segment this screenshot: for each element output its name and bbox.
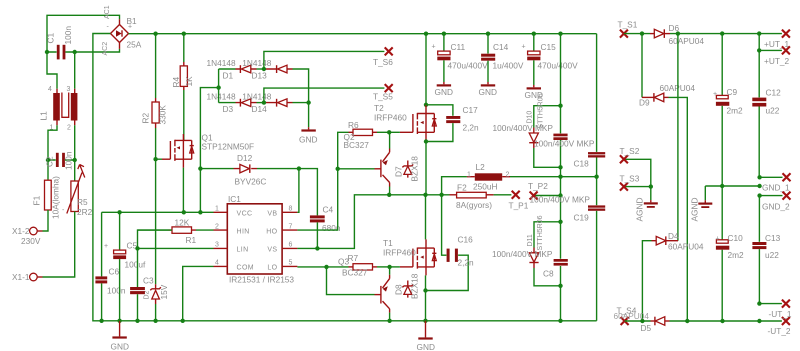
resistor R4 1K: [171, 34, 194, 141]
svg-text:100n: 100n: [64, 151, 74, 170]
svg-text:2: 2: [215, 223, 219, 230]
wire primary column x560: [558, 34, 562, 321]
svg-text:C3: C3: [143, 276, 154, 286]
svg-text:T_S5: T_S5: [373, 92, 393, 102]
svg-text:C18: C18: [574, 159, 590, 169]
svg-text:LO: LO: [267, 264, 277, 271]
ground symbol AGND (T_S2/T_S3): [635, 198, 658, 222]
svg-text:D10: D10: [527, 111, 534, 124]
svg-text:IRFP460: IRFP460: [374, 113, 407, 123]
svg-text:R7: R7: [348, 253, 359, 263]
wire net AC2 (C1 right to bridge AC2, down to L1 pin3): [65, 49, 119, 89]
wire net GND_2: [757, 193, 782, 197]
svg-text:+UT_2: +UT_2: [764, 56, 790, 66]
svg-text:VB: VB: [267, 211, 277, 218]
svg-text:1K: 1K: [184, 76, 194, 87]
svg-text:230V: 230V: [21, 236, 41, 246]
svg-text:2,2n: 2,2n: [458, 258, 475, 268]
test point +UT_1: [764, 30, 790, 49]
fuse F1 10A: [32, 176, 61, 219]
svg-text:HO: HO: [266, 228, 277, 235]
wire Q1 gate net / D2 column: [153, 157, 162, 284]
svg-text:7: 7: [289, 223, 293, 230]
svg-text:R4: R4: [171, 77, 181, 88]
svg-text:BYV26C: BYV26C: [235, 177, 267, 187]
capacitor C19 400V MKP: [574, 177, 606, 321]
svg-text:F2: F2: [457, 183, 467, 193]
svg-text:5: 5: [289, 259, 293, 266]
svg-text:u22: u22: [766, 106, 780, 116]
svg-text:3: 3: [67, 86, 71, 93]
svg-text:1: 1: [467, 172, 471, 179]
svg-text:1N4148: 1N4148: [242, 58, 271, 68]
svg-text:R6: R6: [348, 120, 359, 130]
ground symbol GND (C14): [479, 82, 497, 97]
wire net AC1 (C1 left to bridge AC1): [45, 15, 120, 89]
capacitor C13 u22: [752, 196, 780, 304]
svg-text:100n/400V MKP: 100n/400V MKP: [493, 123, 554, 133]
svg-text:+: +: [104, 243, 108, 250]
svg-text:T_P2: T_P2: [528, 181, 548, 191]
svg-text:C19: C19: [574, 212, 590, 222]
svg-text:AGND: AGND: [635, 198, 645, 222]
svg-text:470u/400V: 470u/400V: [448, 61, 489, 71]
svg-text:250uH: 250uH: [473, 182, 497, 192]
wire L1 pin1 to C2 left / F1: [46, 125, 57, 180]
svg-text:C4: C4: [323, 205, 334, 215]
wire T1 source to GND: [423, 275, 427, 320]
ground symbol AGND (GND row): [690, 198, 713, 222]
svg-text:-UT_1: -UT_1: [769, 309, 792, 319]
diode D14 1N4148: [242, 92, 310, 114]
svg-text:100n/400V MKP: 100n/400V MKP: [530, 194, 591, 204]
svg-text:L1: L1: [39, 111, 49, 121]
capacitor C3: [130, 276, 154, 321]
transistor T2 IRFP460: [374, 34, 436, 142]
svg-text:12K: 12K: [175, 218, 190, 228]
svg-text:T2: T2: [374, 103, 384, 113]
svg-text:GND: GND: [299, 135, 317, 145]
svg-text:D1: D1: [223, 71, 234, 81]
svg-text:STTH5R06: STTH5R06: [537, 215, 544, 250]
diode D5 60APU04: [651, 320, 655, 322]
wire net T_S6: [262, 47, 394, 71]
svg-text:C9: C9: [727, 87, 738, 97]
wire net DC+ top rail (bridge + to C18 column): [129, 32, 597, 36]
connector X1-1: [12, 212, 75, 283]
svg-text:GND_1: GND_1: [762, 183, 790, 193]
svg-text:BZX18: BZX18: [410, 156, 420, 182]
wire HO net (pin7 up to R6): [297, 132, 348, 230]
svg-text:15V: 15V: [159, 284, 169, 299]
capacitor C18 400V MKP: [574, 34, 606, 177]
fuse F2 8A: [450, 183, 512, 211]
capacitor C16 2,2n: [426, 195, 475, 291]
svg-text:470u/400V: 470u/400V: [538, 61, 579, 71]
svg-text:D13: D13: [252, 71, 268, 81]
svg-text:1N4148: 1N4148: [207, 92, 236, 102]
ground symbol GND (T1 source): [417, 321, 435, 351]
wire net +UT_2 branch: [757, 34, 782, 53]
wire VB net (D12 cathode to pin8 and C4 top): [257, 166, 317, 215]
wire net T_S3: [624, 184, 653, 200]
svg-text:D4: D4: [668, 231, 679, 241]
capacitor C10 2m2: [716, 186, 745, 321]
svg-text:D7: D7: [394, 166, 404, 177]
test point T_P1: [509, 191, 529, 211]
bridge rectifier B1 25A: [102, 5, 142, 55]
svg-text:LIN: LIN: [237, 246, 249, 253]
svg-text:T_S1: T_S1: [618, 20, 638, 30]
svg-text:1N4148: 1N4148: [207, 58, 236, 68]
svg-text:6: 6: [289, 241, 293, 248]
svg-text:COM: COM: [237, 264, 255, 271]
svg-text:330K: 330K: [158, 105, 168, 125]
svg-text:C2: C2: [45, 156, 55, 167]
svg-text:D11: D11: [527, 234, 534, 246]
svg-text:X1-1: X1-1: [12, 272, 30, 282]
capacitor C17 2,2n: [426, 105, 479, 142]
transistor T1 IRFP460: [383, 195, 436, 276]
svg-text:+: +: [716, 236, 720, 243]
connector X1-2: [12, 210, 48, 246]
wire net GND_1: [757, 175, 782, 179]
inductor L2 250uH: [442, 162, 599, 195]
svg-text:L2: L2: [476, 162, 486, 172]
svg-text:HIN: HIN: [237, 228, 250, 235]
test point T_S3: [620, 174, 640, 191]
svg-text:IRFP460: IRFP460: [383, 248, 416, 258]
svg-text:R2: R2: [141, 113, 151, 124]
wire L1 pin2 to C2 right / R5: [65, 125, 77, 181]
svg-text:C15: C15: [541, 42, 557, 52]
svg-text:100uf: 100uf: [125, 260, 146, 270]
ground symbol GND (main rail): [111, 321, 129, 351]
svg-text:60APU04: 60APU04: [668, 242, 704, 252]
inductor L1 (common mode choke): [39, 86, 78, 132]
diode D9 60APU04 with secondary terminal wire: [639, 34, 695, 321]
capacitor C8 100n/400V MKP: [492, 194, 590, 278]
svg-text:+UT_1: +UT_1: [764, 39, 790, 49]
svg-text:C1: C1: [46, 33, 56, 44]
wire COM net (pin4 to GND rail): [183, 266, 214, 320]
test point T_S1: [618, 20, 638, 38]
svg-text:D14: D14: [252, 104, 268, 114]
transistor Q1 STP12NM50F: [162, 133, 254, 168]
svg-text:X1-2: X1-2: [12, 226, 30, 236]
svg-text:STP12NM50F: STP12NM50F: [202, 142, 255, 152]
svg-text:GND_2: GND_2: [762, 201, 790, 211]
svg-text:u22: u22: [765, 250, 779, 260]
capacitor C14 1u/400V: [481, 34, 524, 82]
svg-text:AGND: AGND: [690, 198, 700, 222]
capacitor C11 470u/400V: [432, 34, 489, 82]
svg-text:25A: 25A: [127, 40, 142, 50]
svg-text:100n/400V MKP: 100n/400V MKP: [492, 249, 553, 259]
zener diode D8 BZX18: [394, 273, 420, 299]
transistor Q2 BC327: [338, 130, 392, 197]
diode D13 1N4148: [242, 58, 308, 103]
wire net -UT row with diode D5: [625, 317, 782, 333]
svg-text:D9: D9: [639, 98, 650, 108]
wire net T_S2: [624, 159, 651, 186]
test point GND_1: [762, 173, 791, 192]
svg-text:D8: D8: [394, 284, 404, 295]
svg-text:100n: 100n: [63, 26, 73, 45]
test point -UT_2: [768, 317, 791, 336]
NTC resistor R5 2R2: [62, 165, 93, 218]
junction node C1-left: [45, 50, 49, 54]
svg-text:D5: D5: [641, 323, 652, 333]
resistor R1 12K and HIN row: [138, 218, 214, 246]
diode D11 STTH5R06: [527, 215, 561, 285]
svg-text:R1: R1: [186, 235, 197, 245]
svg-text:AC2: AC2: [102, 42, 109, 56]
svg-text:D3: D3: [223, 104, 234, 114]
capacitor C1 100n: [46, 26, 74, 60]
diode D1 1N4148: [207, 58, 264, 81]
svg-text:60APU04: 60APU04: [669, 36, 705, 46]
wire Q1 source to VCC node: [182, 168, 184, 213]
svg-text:D6: D6: [669, 23, 680, 33]
svg-text:4: 4: [48, 86, 52, 93]
resistor R7: [348, 253, 390, 270]
test point T_S4: [614, 306, 650, 326]
svg-text:2m2: 2m2: [728, 250, 745, 260]
capacitor C9 2m2: [713, 34, 743, 186]
svg-text:C10: C10: [728, 233, 744, 243]
svg-text:GND: GND: [111, 342, 129, 351]
svg-text:T_P1: T_P1: [509, 201, 529, 211]
test point T_P2: [528, 181, 563, 200]
svg-text:60APU04: 60APU04: [614, 311, 650, 321]
svg-text:2: 2: [67, 125, 71, 132]
svg-text:C14: C14: [493, 42, 509, 52]
svg-text:C11: C11: [451, 42, 466, 52]
IC U1 IR21531/IR2153: [214, 194, 298, 285]
capacitor C5 100uf: [104, 212, 146, 320]
svg-text:GND: GND: [479, 87, 497, 97]
diode D4 60APU04 with riser to +UT: [642, 34, 704, 321]
svg-text:T_S3: T_S3: [620, 174, 640, 184]
svg-text:BC327: BC327: [342, 268, 368, 278]
svg-text:+: +: [522, 44, 526, 51]
svg-text:GND: GND: [417, 342, 435, 351]
svg-text:IC1: IC1: [228, 194, 241, 204]
svg-text:+: +: [128, 24, 132, 31]
svg-text:2R2: 2R2: [77, 207, 93, 217]
svg-text:+: +: [713, 91, 717, 98]
svg-text:C8: C8: [543, 269, 554, 279]
svg-text:C13: C13: [765, 233, 781, 243]
svg-text:2: 2: [506, 172, 510, 179]
svg-text:8A(gyors): 8A(gyors): [456, 200, 492, 210]
svg-text:C17: C17: [463, 105, 479, 115]
svg-text:100n: 100n: [107, 286, 126, 296]
svg-text:IR21531 / IR2153: IR21531 / IR2153: [229, 275, 294, 285]
test point GND_2: [762, 192, 791, 212]
svg-text:F1: F1: [32, 195, 42, 205]
svg-text:C6: C6: [109, 267, 120, 277]
ground symbol GND (C15): [525, 85, 543, 100]
test point T_S2: [620, 146, 640, 163]
svg-text:GND: GND: [435, 87, 453, 97]
wire net DC- / GND bottom rail: [93, 34, 597, 323]
transistor Q3 BC327: [327, 257, 392, 321]
diode D12 BYV26C: [200, 153, 266, 187]
svg-text:T1: T1: [383, 238, 393, 248]
ground symbol GND (diode row): [299, 103, 317, 145]
svg-text:AC1: AC1: [104, 5, 111, 19]
svg-text:2m2: 2m2: [727, 106, 744, 116]
svg-text:BZX18: BZX18: [410, 273, 420, 299]
svg-text:1: 1: [215, 206, 219, 213]
wire D1/D3 cathodes to VCC column: [198, 69, 221, 212]
test point +UT_2: [764, 46, 790, 66]
test point -UT_1: [769, 300, 792, 319]
svg-text:-UT_2: -UT_2: [768, 326, 791, 336]
diode D10 STTH5R06: [527, 93, 561, 167]
ground symbol GND (C11): [435, 82, 453, 97]
svg-text:+: +: [432, 44, 436, 51]
wire net -UT_1 branch: [757, 301, 782, 305]
svg-text:VS: VS: [267, 246, 277, 253]
resistor R6: [348, 120, 389, 136]
capacitor C15 470u/400V: [522, 34, 579, 85]
svg-text:10A(lomha): 10A(lomha): [51, 176, 61, 219]
svg-text:4: 4: [215, 259, 219, 266]
svg-text:R5: R5: [77, 197, 88, 207]
capacitor C4 680n: [310, 205, 341, 249]
svg-text:C12: C12: [766, 88, 782, 98]
wire T2 source node: [424, 139, 428, 195]
svg-text:1N4148: 1N4148: [242, 92, 271, 102]
zener diode D2 15V: [144, 284, 170, 321]
svg-text:1u/400V: 1u/400V: [493, 61, 524, 71]
wire VS / half-bridge midpoint net: [297, 193, 449, 251]
wire R1-left / LIN / C3 net: [135, 230, 213, 287]
svg-text:VCC: VCC: [237, 211, 253, 218]
capacitor C12 u22: [752, 50, 781, 177]
svg-text:2,2n: 2,2n: [463, 123, 480, 133]
wire LO row (pin5): [297, 265, 348, 269]
diode D3 1N4148: [207, 92, 264, 114]
wire net +UT row: [624, 31, 782, 35]
wire secondary GND row: [705, 184, 762, 201]
wire VCC row: [102, 210, 214, 214]
capacitor C6 100n: [95, 212, 125, 320]
zener diode D7 BZX18: [394, 156, 420, 182]
svg-text:100n/400V MKP: 100n/400V MKP: [534, 139, 595, 149]
svg-text:Q3: Q3: [338, 257, 349, 267]
capacitor C7 100n/400V MKP: [493, 123, 595, 149]
svg-text:C16: C16: [458, 235, 474, 245]
svg-text:T_S2: T_S2: [620, 146, 640, 156]
resistor R2 330K: [141, 34, 168, 160]
svg-text:BC327: BC327: [344, 140, 370, 150]
capacitor C2 100n: [45, 151, 74, 170]
svg-text:D12: D12: [237, 153, 253, 163]
diode D6 60APU04: [650, 23, 704, 46]
svg-text:8: 8: [289, 206, 293, 213]
svg-text:T_S6: T_S6: [373, 57, 393, 67]
svg-text:3: 3: [215, 241, 219, 248]
wire net T_S5: [262, 84, 394, 105]
